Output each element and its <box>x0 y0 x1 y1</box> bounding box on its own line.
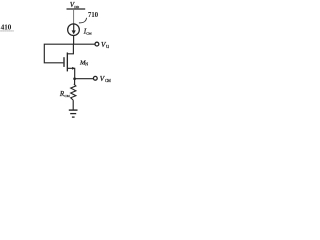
svg-text:CM: CM <box>105 79 111 83</box>
annotation link "410" <box>1 23 12 32</box>
wire current source to drain node <box>73 35 75 44</box>
current source ICM circle <box>68 24 80 36</box>
transistor MN channel bar <box>66 53 68 72</box>
transistor MN drain lead <box>67 44 73 54</box>
annotation "7.10" <box>88 11 99 19</box>
terminal Vb <box>95 42 99 46</box>
wire gate feedback loop <box>44 44 73 63</box>
svg-text:u: u <box>106 44 109 50</box>
supply rail VDD bar <box>67 8 86 10</box>
svg-text:410: 410 <box>1 23 12 32</box>
wire VDD rail to current source <box>73 9 75 24</box>
svg-text:N: N <box>85 63 88 67</box>
wire source node to resistor <box>73 79 76 84</box>
supply label VDD <box>70 2 80 9</box>
label MN <box>79 60 88 67</box>
annotation underline <box>1 30 14 32</box>
svg-text:CM: CM <box>86 31 92 35</box>
label RCM <box>59 90 71 98</box>
label ICM <box>83 27 93 35</box>
current source arrow <box>73 24 75 31</box>
wire resistor to ground <box>72 100 74 110</box>
label Vb <box>101 41 109 50</box>
junction dot source node <box>73 77 76 80</box>
transistor MN gate bar <box>63 57 65 67</box>
annotation leader line <box>79 18 87 23</box>
wire drain node to Vb terminal <box>74 43 95 45</box>
label VCM <box>100 75 112 83</box>
ground <box>69 109 78 111</box>
resistor RCM <box>71 84 76 100</box>
wire source node to VCM terminal <box>75 78 94 80</box>
transistor MN source lead <box>67 68 74 78</box>
terminal VCM <box>93 76 97 80</box>
svg-text:710: 710 <box>88 11 99 19</box>
svg-text:CM: CM <box>64 94 70 98</box>
transistor MN source arrow <box>72 67 75 70</box>
